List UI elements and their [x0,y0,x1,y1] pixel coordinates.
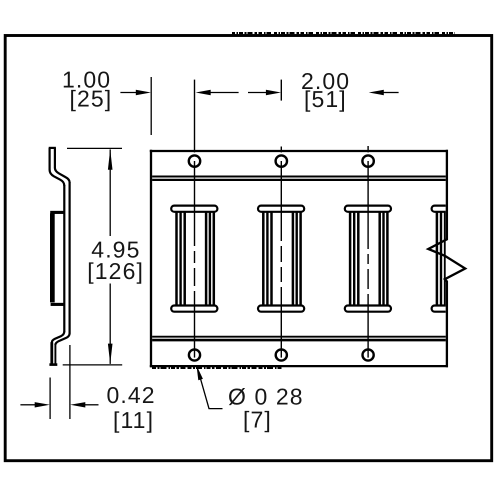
svg-text:[25]: [25] [70,86,113,112]
svg-text:[7]: [7] [243,407,272,433]
svg-text:[11]: [11] [113,407,154,433]
svg-text:[51]: [51] [304,86,347,112]
svg-text:0.42: 0.42 [107,382,156,408]
svg-text:[126]: [126] [87,258,144,284]
